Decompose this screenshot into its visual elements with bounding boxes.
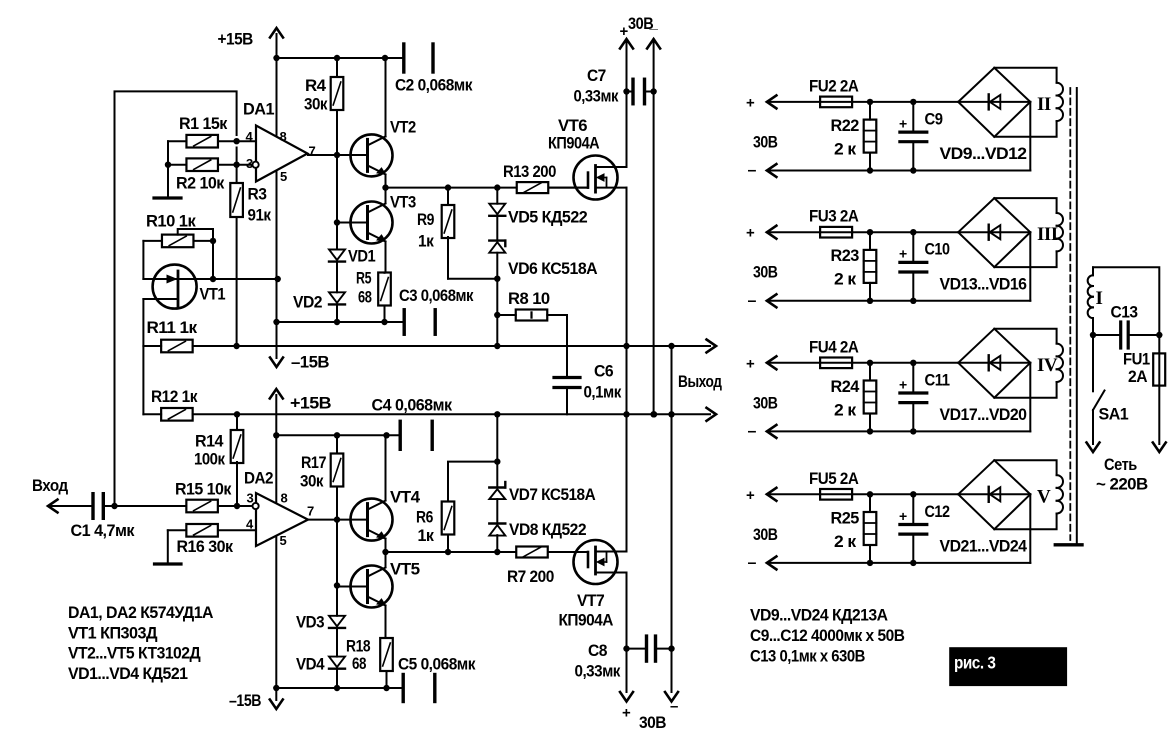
svg-text:68: 68 bbox=[352, 654, 366, 673]
svg-text:КП904А: КП904А bbox=[559, 611, 614, 630]
svg-text:7: 7 bbox=[309, 144, 316, 159]
svg-text:C11: C11 bbox=[925, 370, 950, 389]
svg-text:7: 7 bbox=[307, 504, 314, 519]
svg-text:R10 1к: R10 1к bbox=[146, 212, 196, 231]
svg-text:VT3: VT3 bbox=[390, 193, 416, 212]
svg-text:C5 0,068мк: C5 0,068мк bbox=[398, 655, 476, 674]
svg-text:C8: C8 bbox=[588, 641, 607, 660]
svg-text:R14: R14 bbox=[195, 432, 224, 451]
svg-text:2 к: 2 к bbox=[834, 400, 857, 419]
svg-text:8: 8 bbox=[280, 129, 287, 144]
svg-text:5: 5 bbox=[280, 169, 287, 184]
svg-text:30к: 30к bbox=[304, 95, 328, 114]
svg-text:Вход: Вход bbox=[32, 476, 68, 495]
svg-text:+: + bbox=[746, 94, 755, 111]
svg-text:2 к: 2 к bbox=[834, 270, 857, 289]
svg-text:VD4: VD4 bbox=[296, 655, 325, 674]
svg-text:+: + bbox=[746, 225, 755, 242]
svg-text:VD5 КД522: VD5 КД522 bbox=[508, 208, 587, 227]
svg-text:+: + bbox=[899, 246, 907, 262]
svg-text:VD21...VD24: VD21...VD24 bbox=[940, 536, 1028, 555]
svg-text:C13: C13 bbox=[1111, 303, 1138, 322]
svg-text:0,1мк: 0,1мк bbox=[584, 383, 622, 402]
svg-text:R25: R25 bbox=[831, 508, 859, 527]
svg-text:+: + bbox=[746, 487, 755, 504]
svg-text:30к: 30к bbox=[300, 472, 324, 491]
svg-text:VD13...VD16: VD13...VD16 bbox=[940, 274, 1027, 293]
svg-text:1к: 1к bbox=[418, 232, 434, 251]
svg-text:2 к: 2 к bbox=[834, 139, 857, 158]
svg-text:R11 1к: R11 1к bbox=[147, 318, 198, 337]
svg-text:VD17...VD20: VD17...VD20 bbox=[940, 405, 1027, 424]
svg-text:Выход: Выход bbox=[678, 372, 722, 391]
svg-text:II: II bbox=[1037, 94, 1051, 115]
svg-text:R2 10к: R2 10к bbox=[176, 174, 225, 193]
svg-text:VT4: VT4 bbox=[390, 488, 421, 507]
svg-text:VT5: VT5 bbox=[390, 560, 420, 579]
svg-text:+: + bbox=[899, 376, 907, 392]
svg-text:C4 0,068мк: C4 0,068мк bbox=[372, 396, 453, 415]
svg-text:DA1: DA1 bbox=[243, 100, 274, 119]
svg-text:91к: 91к bbox=[248, 206, 272, 225]
svg-text:FU2 2A: FU2 2A bbox=[809, 76, 859, 95]
svg-text:C7: C7 bbox=[587, 66, 606, 85]
svg-text:III: III bbox=[1037, 224, 1058, 245]
svg-text:VD7 КС518А: VD7 КС518А bbox=[509, 485, 595, 504]
svg-text:0,33мк: 0,33мк bbox=[574, 87, 619, 106]
svg-text:VT6: VT6 bbox=[558, 116, 587, 135]
svg-text:DA2: DA2 bbox=[244, 469, 273, 488]
svg-text:VD9...VD24 КД213А: VD9...VD24 КД213А bbox=[750, 606, 888, 625]
svg-text:R8 10: R8 10 bbox=[508, 289, 550, 308]
svg-text:+: + bbox=[899, 115, 907, 131]
svg-text:C12: C12 bbox=[925, 502, 950, 521]
svg-text:30В: 30В bbox=[753, 525, 778, 544]
svg-text:DA1, DA2 К574УД1А: DA1, DA2 К574УД1А bbox=[68, 603, 213, 622]
svg-text:FU5 2A: FU5 2A bbox=[809, 469, 859, 488]
svg-text:R17: R17 bbox=[301, 453, 326, 472]
svg-text:100к: 100к bbox=[194, 450, 225, 469]
svg-text:VT1 КП303Д: VT1 КП303Д bbox=[68, 623, 157, 642]
svg-text:R5: R5 bbox=[356, 269, 371, 288]
svg-text:68: 68 bbox=[358, 288, 372, 307]
svg-text:–: – bbox=[748, 292, 757, 309]
svg-text:C9...C12 4000мк x 50В: C9...C12 4000мк x 50В bbox=[750, 626, 905, 645]
svg-text:~ 220В: ~ 220В bbox=[1096, 475, 1148, 494]
svg-text:–: – bbox=[748, 554, 757, 571]
svg-text:SA1: SA1 bbox=[1099, 405, 1129, 424]
svg-text:VD8 КД522: VD8 КД522 bbox=[509, 520, 586, 539]
svg-text:30В: 30В bbox=[753, 132, 778, 151]
svg-text:C3 0,068мк: C3 0,068мк bbox=[399, 286, 474, 305]
svg-text:VD2: VD2 bbox=[293, 293, 322, 312]
svg-text:+: + bbox=[620, 23, 629, 40]
svg-text:+: + bbox=[899, 508, 907, 524]
svg-text:3: 3 bbox=[246, 156, 253, 171]
svg-text:R3: R3 bbox=[248, 185, 267, 204]
svg-text:R22: R22 bbox=[831, 116, 859, 135]
svg-text:5: 5 bbox=[280, 533, 287, 548]
svg-text:VT7: VT7 bbox=[577, 591, 604, 610]
svg-text:+15В: +15В bbox=[218, 30, 254, 49]
svg-text:Сеть: Сеть bbox=[1104, 455, 1137, 474]
svg-text:IV: IV bbox=[1037, 355, 1058, 376]
svg-text:VT1: VT1 bbox=[200, 285, 226, 304]
svg-text:–15В: –15В bbox=[229, 691, 261, 710]
svg-text:C1 4,7мк: C1 4,7мк bbox=[71, 521, 135, 540]
svg-text:C6: C6 bbox=[594, 362, 613, 381]
svg-text:FU4 2A: FU4 2A bbox=[809, 337, 859, 356]
svg-text:_: _ bbox=[649, 15, 659, 32]
svg-text:–: – bbox=[748, 423, 757, 440]
svg-text:2A: 2A bbox=[1128, 367, 1147, 386]
svg-text:VD1: VD1 bbox=[348, 247, 375, 266]
svg-text:0,33мк: 0,33мк bbox=[575, 662, 621, 681]
svg-text:R24: R24 bbox=[831, 377, 860, 396]
svg-text:R23: R23 bbox=[831, 246, 859, 265]
svg-text:КП904А: КП904А bbox=[548, 134, 599, 153]
svg-text:R15 10к: R15 10к bbox=[175, 480, 232, 499]
svg-text:R18: R18 bbox=[346, 637, 370, 656]
svg-text:30В: 30В bbox=[753, 393, 778, 412]
svg-text:+: + bbox=[622, 705, 631, 722]
svg-text:VT2: VT2 bbox=[390, 118, 416, 137]
svg-text:–: – bbox=[748, 162, 757, 179]
svg-text:+15В: +15В bbox=[290, 394, 331, 413]
svg-text:C9: C9 bbox=[925, 109, 943, 128]
svg-text:VD9...VD12: VD9...VD12 bbox=[940, 144, 1027, 163]
svg-text:VD3: VD3 bbox=[296, 613, 324, 632]
svg-text:1к: 1к bbox=[418, 526, 435, 545]
svg-text:VT2...VT5 КТ3102Д: VT2...VT5 КТ3102Д bbox=[68, 644, 201, 663]
svg-text:R4: R4 bbox=[305, 76, 327, 95]
svg-text:R16 30к: R16 30к bbox=[177, 537, 234, 556]
svg-text:FU3 2A: FU3 2A bbox=[809, 207, 859, 226]
svg-text:+: + bbox=[746, 355, 755, 372]
svg-text:C2 0,068мк: C2 0,068мк bbox=[395, 76, 473, 95]
svg-text:30В: 30В bbox=[639, 713, 666, 732]
svg-text:V: V bbox=[1037, 486, 1051, 507]
svg-text:R9: R9 bbox=[417, 210, 434, 229]
svg-text:рис. 3: рис. 3 bbox=[954, 653, 996, 673]
svg-text:FU1: FU1 bbox=[1123, 350, 1150, 369]
svg-text:R13 200: R13 200 bbox=[503, 162, 556, 181]
svg-text:C10: C10 bbox=[925, 240, 950, 259]
svg-text:–: – bbox=[670, 698, 678, 715]
svg-text:R7 200: R7 200 bbox=[507, 567, 554, 586]
svg-text:R1 15к: R1 15к bbox=[179, 114, 228, 133]
svg-text:2 к: 2 к bbox=[834, 532, 857, 551]
svg-text:30В: 30В bbox=[753, 263, 778, 282]
svg-text:4: 4 bbox=[246, 517, 254, 532]
svg-text:R12 1к: R12 1к bbox=[151, 387, 198, 406]
svg-text:VD1...VD4 КД521: VD1...VD4 КД521 bbox=[68, 664, 188, 683]
svg-text:R6: R6 bbox=[416, 508, 433, 527]
svg-text:3: 3 bbox=[247, 491, 254, 506]
svg-text:8: 8 bbox=[281, 491, 288, 506]
svg-text:I: I bbox=[1096, 288, 1103, 309]
svg-text:–15В: –15В bbox=[291, 353, 329, 372]
svg-text:C13 0,1мк x 630В: C13 0,1мк x 630В bbox=[750, 646, 865, 665]
svg-text:VD6 КС518А: VD6 КС518А bbox=[508, 259, 597, 278]
